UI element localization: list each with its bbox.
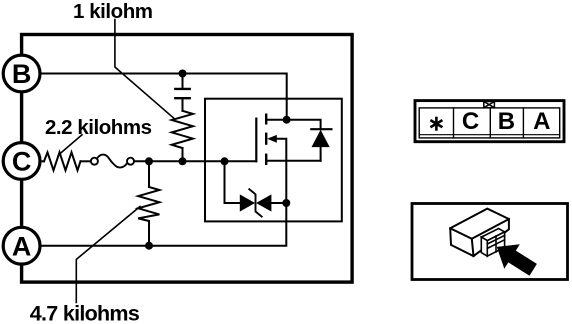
transistor Q1 body arrow — [267, 135, 277, 143]
zener Z1 right triangle — [256, 194, 271, 211]
label leader 4.7 kilohms — [76, 207, 140, 303]
connector keying bowtie — [484, 102, 495, 108]
wire B row — [40, 74, 287, 120]
wire R1 bottom lead — [182, 148, 184, 161]
connector pinout outer box — [415, 101, 564, 142]
package box — [412, 204, 568, 280]
zener Z1 left triangle — [240, 194, 255, 211]
node drain — [283, 116, 291, 124]
resistor R3 4.7 kilohms — [138, 187, 159, 221]
wire Z1 to node — [271, 202, 286, 204]
terminal A — [3, 227, 40, 264]
wire source — [266, 160, 320, 162]
zener Z1 center bar — [249, 189, 261, 216]
wire drain — [266, 119, 286, 121]
terminal C — [3, 143, 40, 180]
wire C row left — [40, 160, 44, 162]
wire cap top lead — [182, 74, 184, 88]
pin label asterisk — [432, 118, 442, 129]
wire diode top lead — [287, 120, 321, 130]
svg-text:2.2 kilohms: 2.2 kilohms — [45, 116, 152, 139]
transistor Q1 channel — [265, 115, 267, 164]
label leader 2.2 kilohms — [60, 135, 82, 154]
wire fuse to node X — [134, 160, 149, 162]
resistor R2 2.2 kilohms — [44, 152, 81, 170]
node R1-C row — [179, 157, 187, 165]
wire R3 bottom lead — [148, 221, 150, 246]
package arrow — [497, 244, 537, 276]
node gate branch — [221, 157, 229, 165]
module outline box — [22, 35, 353, 283]
capacitor C1 — [175, 89, 189, 98]
svg-text:A: A — [533, 108, 550, 135]
diode D1 — [312, 130, 330, 147]
svg-text:A: A — [12, 231, 32, 261]
node B branch — [179, 70, 187, 78]
package module body — [450, 209, 509, 257]
svg-text:C: C — [462, 108, 479, 135]
resistor R1 1 kilohm — [172, 111, 193, 148]
connector pinout divider 3 — [522, 108, 524, 138]
wire C row to gate — [149, 160, 256, 162]
svg-text:1 kilohm: 1 kilohm — [73, 0, 153, 23]
fuse F1 — [91, 155, 134, 168]
package connector block — [481, 229, 504, 257]
connector pinout inner box — [419, 108, 560, 138]
wire gate to TVS — [225, 161, 240, 203]
svg-text:B: B — [12, 59, 32, 89]
wire body to TVS node — [276, 139, 286, 203]
connector pinout divider 1 — [453, 108, 455, 138]
label leader 1 kilohm — [115, 20, 175, 119]
svg-text:C: C — [12, 147, 32, 177]
terminal B — [3, 55, 40, 92]
node TVS — [282, 199, 290, 207]
connector pinout shelf line — [419, 134, 560, 136]
inner IC box U1 — [205, 99, 342, 222]
wire cap bottom lead — [182, 99, 184, 110]
svg-text:4.7 kilohms: 4.7 kilohms — [30, 301, 140, 324]
wire R2 to fuse — [81, 160, 92, 162]
wire A row — [40, 203, 286, 246]
node X — [145, 157, 153, 165]
wire diode bottom lead — [320, 147, 322, 161]
svg-text:B: B — [498, 108, 515, 135]
wire R3 top lead — [148, 161, 150, 187]
node A row — [145, 242, 153, 250]
connector pinout divider 2 — [489, 108, 491, 138]
transistor Q1 gate bar — [255, 119, 257, 162]
diode D1 cathode bar — [311, 128, 331, 130]
